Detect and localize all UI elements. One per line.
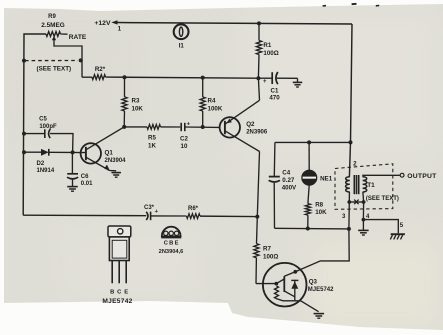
dashed enclosure T1 [335, 164, 393, 210]
resistor R5 [147, 125, 161, 130]
wire osc top [275, 141, 351, 143]
svg-text:D2: D2 [37, 161, 45, 167]
wire bottom left [23, 214, 146, 217]
node dashed-wiper [79, 58, 83, 62]
wire R5 left [124, 126, 147, 128]
wire D2 left [24, 151, 41, 153]
transformer T1 secondary [363, 177, 367, 192]
wire T1 secondary out [363, 175, 400, 176]
svg-text:Q1: Q1 [105, 150, 114, 157]
transistor Q2 [220, 117, 240, 137]
svg-text:C2: C2 [180, 136, 188, 143]
svg-text:R2*: R2* [95, 66, 106, 73]
wire R5-C2 [161, 126, 181, 128]
node C2-R4 [201, 125, 205, 129]
ground T1 pin4 [362, 220, 364, 230]
wire T1 x-link [348, 192, 350, 202]
TO-92 package 2N3904 [162, 227, 181, 237]
svg-text:C1: C1 [271, 88, 279, 95]
node R3-R5-Q1 [122, 125, 126, 129]
resistor R2 [92, 75, 106, 80]
ground C1 [293, 81, 303, 83]
svg-text:470: 470 [269, 95, 280, 102]
capacitor C4 [273, 142, 276, 176]
capacitor C3 [146, 212, 148, 220]
svg-text:R7: R7 [263, 246, 271, 253]
svg-text:MJE5742: MJE5742 [308, 287, 334, 293]
node R2-R4 [201, 76, 205, 80]
svg-text:RATE: RATE [69, 34, 87, 41]
svg-text:2: 2 [353, 161, 357, 168]
transformer T1 core [353, 175, 355, 194]
capacitor C6 [71, 152, 73, 173]
node base-C6 [71, 150, 75, 154]
node x-right [362, 200, 366, 204]
svg-text:100Ω: 100Ω [263, 50, 278, 57]
wire Q3 emitter [295, 301, 319, 312]
wire Q3 collector [295, 229, 349, 272]
svg-text:OUTPUT: OUTPUT [407, 173, 437, 180]
svg-text:C5: C5 [39, 117, 47, 123]
svg-text:R6*: R6* [188, 206, 199, 212]
supply arrowhead [111, 20, 117, 24]
svg-text:10K: 10K [132, 106, 144, 113]
svg-text:(SEE TEXT): (SEE TEXT) [366, 196, 399, 202]
node x-left [347, 200, 351, 204]
wire R2 line [82, 76, 92, 78]
capacitor C2 [180, 123, 182, 131]
diode D2 [41, 149, 49, 156]
TO-220 package MJE5742 [108, 226, 131, 237]
ground Q1 emitter [110, 170, 117, 172]
wire R2node-C1 [258, 77, 272, 79]
dashed link (see text) [25, 60, 78, 62]
svg-text:2N3906: 2N3906 [246, 129, 268, 135]
transformer T1 primary [346, 177, 350, 192]
wire T1 pin4 [362, 202, 364, 220]
svg-text:1N914: 1N914 [37, 168, 55, 174]
wire Q3 base [256, 283, 276, 285]
svg-text:T1: T1 [367, 182, 375, 189]
wire T1 pin3 [348, 202, 350, 229]
node top-R1 [257, 21, 261, 25]
node osc-NE1 top [307, 140, 311, 144]
svg-text:400V: 400V [282, 185, 297, 192]
wire D2-Q1base [49, 151, 86, 153]
node pin4 [362, 218, 366, 222]
wire Q2 emitter up [258, 78, 259, 100]
neon lamp NE1 [308, 142, 310, 170]
svg-text:Q2: Q2 [246, 121, 255, 128]
node bottom-R7 [255, 215, 259, 219]
output terminal [400, 173, 404, 177]
chassis ground pin5 [391, 233, 405, 235]
svg-text:NE1: NE1 [320, 175, 333, 182]
node rail-dashed [22, 59, 26, 63]
wire osc bottom [275, 227, 349, 230]
svg-text:1K: 1K [148, 142, 156, 149]
wire C3-R6 [151, 215, 187, 217]
node T1pin3-bottom [347, 227, 351, 231]
svg-text:100pF: 100pF [39, 124, 57, 130]
svg-text:Q3: Q3 [309, 279, 318, 286]
scan marks [323, 5, 326, 7]
resistor R1 [258, 23, 260, 40]
svg-text:R5: R5 [148, 135, 156, 142]
node R2-R1-C1 [256, 76, 260, 80]
wire pin4-pin5 [363, 220, 398, 234]
svg-text:2N3904: 2N3904 [105, 158, 127, 164]
potentiometer R9 [46, 32, 61, 37]
wire C1-gnd [277, 77, 298, 79]
resistor R3 [124, 77, 126, 97]
svg-text:C6: C6 [81, 174, 89, 180]
phasing X [354, 200, 358, 205]
svg-text:I1: I1 [179, 43, 185, 50]
svg-text:C4: C4 [282, 170, 290, 177]
wire C2-Q2base [185, 126, 220, 128]
node R8-bottom [306, 227, 310, 231]
svg-text:+12V: +12V [94, 20, 111, 27]
svg-text:10K: 10K [315, 209, 327, 216]
wire pot left lead [23, 34, 46, 215]
svg-text:C3*: C3* [144, 205, 155, 211]
lamp I1 [174, 24, 189, 39]
svg-text:R9: R9 [48, 14, 56, 20]
svg-text:E: E [175, 241, 179, 247]
node osc-T1 top [349, 140, 353, 144]
wire Q2 collector down [257, 152, 259, 217]
wire pot right lead [61, 33, 68, 35]
ground Q3 [314, 313, 325, 315]
node rail-C5 [22, 132, 26, 136]
svg-text:100K: 100K [208, 106, 223, 113]
wire +12V rail [117, 23, 352, 25]
capacitor C5 [44, 129, 46, 138]
resistor R7 [256, 217, 259, 244]
pot wiper arrow [52, 36, 56, 40]
svg-text:0.27: 0.27 [282, 177, 295, 184]
svg-text:B: B [110, 289, 114, 295]
wire C5 left [24, 133, 44, 135]
resistor R4 [202, 78, 204, 97]
svg-text:2.5MEG: 2.5MEG [41, 22, 64, 29]
svg-text:R3: R3 [132, 98, 140, 105]
svg-text:R4: R4 [208, 98, 216, 105]
svg-text:E: E [124, 289, 128, 295]
scan tick [130, 227, 132, 232]
node R2-R3 [123, 75, 127, 79]
ground C6 [67, 186, 78, 188]
wire C5-right [50, 134, 73, 153]
svg-text:0.01: 0.01 [81, 181, 93, 187]
transistor Q1 [81, 143, 101, 163]
resistor R8 [305, 204, 310, 216]
svg-text:R1: R1 [263, 42, 271, 49]
svg-text:R8: R8 [315, 202, 323, 209]
wire top-right corner down [349, 24, 352, 177]
svg-text:+: + [263, 79, 267, 85]
svg-text:10: 10 [181, 143, 188, 150]
svg-text:B: B [169, 241, 173, 247]
transistor Q3 [263, 263, 307, 307]
resistor R6 [187, 214, 201, 219]
svg-text:100Ω: 100Ω [263, 254, 278, 261]
svg-text:MJE5742: MJE5742 [102, 298, 132, 305]
svg-text:1: 1 [118, 26, 122, 33]
wire R6-R7node [200, 215, 257, 218]
capacitor C1 [271, 72, 273, 84]
svg-text:(SEE TEXT): (SEE TEXT) [37, 66, 72, 73]
svg-text:2N3904,6: 2N3904,6 [159, 249, 184, 255]
node rail-D2 [22, 150, 26, 154]
